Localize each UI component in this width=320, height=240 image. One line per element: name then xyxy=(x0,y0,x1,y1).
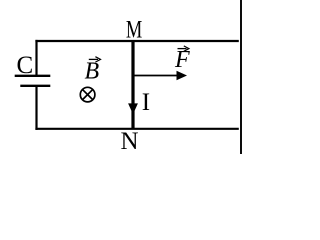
current I arrowhead xyxy=(128,103,138,114)
force F arrow xyxy=(135,75,179,77)
svg-text:N: N xyxy=(121,128,139,154)
svg-text:M: M xyxy=(126,16,142,43)
capacitor C1 top plate xyxy=(15,75,51,77)
right border line xyxy=(240,0,242,154)
wire top xyxy=(35,40,238,42)
svg-text:B: B xyxy=(85,58,100,84)
svg-text:I: I xyxy=(142,89,150,116)
rod MN xyxy=(131,41,134,129)
field B into page symbol xyxy=(80,87,95,102)
wire left upper xyxy=(35,40,37,76)
svg-text:C: C xyxy=(17,52,34,79)
svg-text:F: F xyxy=(174,47,190,73)
wire bottom xyxy=(35,128,238,130)
wire left lower xyxy=(35,86,37,130)
capacitor C1 bottom plate xyxy=(20,85,50,87)
